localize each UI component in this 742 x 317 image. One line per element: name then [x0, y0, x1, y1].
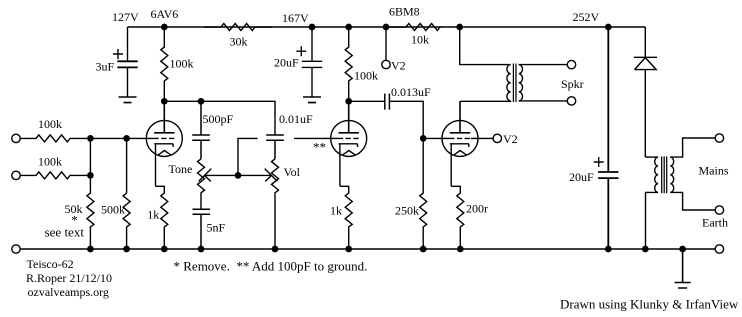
svg-text:R.Roper 21/12/10: R.Roper 21/12/10	[26, 271, 112, 285]
junction rail Vol	[272, 246, 279, 253]
junction B+ at 100k V1	[161, 24, 168, 31]
junction rail 1k V1	[161, 246, 168, 253]
svg-text:Vol: Vol	[284, 165, 301, 179]
junction rail 50k	[87, 246, 94, 253]
junction rail 500k	[123, 246, 130, 253]
junction B+ at OT primary	[456, 24, 463, 31]
wire V2 heater stub	[385, 27, 387, 60]
terminal Earth	[715, 245, 723, 253]
svg-text:250k: 250k	[395, 204, 419, 218]
svg-text:Drawn using Klunky & IrfanView: Drawn using Klunky & IrfanView	[560, 297, 739, 312]
terminal V2 top	[382, 60, 390, 68]
transformer PT primary top lead	[646, 156, 659, 158]
svg-text:10k: 10k	[411, 33, 429, 47]
junction wiper node	[235, 172, 242, 179]
terminal Mains top	[715, 134, 723, 142]
svg-text:V2: V2	[503, 132, 518, 146]
svg-text:100k: 100k	[170, 57, 194, 71]
junction rail 1k V2a	[345, 246, 352, 253]
svg-text:20uF: 20uF	[569, 170, 594, 184]
junction rail 20uF reservoir	[605, 246, 612, 253]
junction B+ at V2 stub	[383, 24, 390, 31]
ground below 3uF	[119, 97, 137, 103]
triode V2b plate	[450, 101, 470, 133]
input jack 2	[12, 171, 20, 179]
svg-text:* Remove. ** Add 100pF to gro: * Remove. ** Add 100pF to ground.	[174, 259, 368, 274]
junction B+ at 20uF	[309, 24, 316, 31]
junction plate node 500pF	[198, 98, 205, 105]
svg-text:167V: 167V	[282, 11, 309, 25]
triode V2b grid	[449, 137, 471, 139]
wire 3uF top lead	[127, 27, 129, 61]
svg-text:500k: 500k	[101, 203, 125, 217]
transformer PT mains winding	[670, 157, 673, 192]
triode V1 plate	[154, 101, 174, 133]
wire plate V2a to coupling cap	[349, 100, 385, 102]
svg-text:5nF: 5nF	[207, 221, 226, 235]
wire B+ to OT primary	[460, 27, 511, 65]
junction input2 mix	[87, 172, 94, 179]
junction rail Tone	[198, 246, 205, 253]
resistor R 50k grid leak	[87, 175, 94, 249]
resistor R 100k plate load V1	[161, 27, 168, 101]
triode V2a 6BM8 envelope	[331, 120, 367, 156]
triode V1 cathode	[154, 144, 173, 187]
triode V2a heater	[343, 151, 355, 155]
junction plate V1	[161, 98, 168, 105]
capacitor C 20uF electrolytic	[302, 27, 322, 97]
svg-text:500pF: 500pF	[203, 112, 234, 126]
svg-text:1k: 1k	[330, 204, 342, 218]
plus sign 3uF	[113, 49, 123, 59]
svg-text:Tone: Tone	[169, 162, 193, 176]
potentiometer Vol body	[272, 159, 279, 249]
ground chassis earth	[675, 249, 691, 288]
svg-text:20uF: 20uF	[274, 56, 299, 70]
svg-text:0.01uF: 0.01uF	[279, 112, 313, 126]
terminal Spkr bottom	[567, 97, 575, 105]
triode V1 heater	[158, 151, 170, 155]
svg-text:3uF: 3uF	[96, 60, 115, 74]
terminal input ground	[12, 245, 20, 253]
triode V1 grid	[153, 137, 175, 139]
svg-text:6BM8: 6BM8	[389, 4, 420, 18]
junction grid node 500k	[123, 135, 130, 142]
wire wiper node up to grid wire	[238, 138, 258, 175]
svg-text:see text: see text	[45, 224, 85, 239]
transformer OT secondary winding	[519, 65, 523, 101]
svg-text:**: **	[313, 139, 326, 154]
diode D1 rectifier	[634, 27, 657, 157]
node plate V1 wire to 0.01uF	[164, 101, 275, 135]
potentiometer Vol wiper arrow	[238, 169, 277, 182]
wire ground rail	[20, 248, 715, 250]
svg-text:100k: 100k	[354, 69, 378, 83]
svg-text:Spkr: Spkr	[561, 77, 584, 91]
wire grid V2b to terminal	[471, 137, 493, 139]
junction plate V2a	[345, 98, 352, 105]
svg-text:200r: 200r	[466, 202, 488, 216]
capacitor C 0.01uF coupling	[266, 135, 284, 159]
potentiometer Tone wiper arrow	[199, 169, 238, 182]
capacitor C 0.013uF	[385, 94, 390, 110]
junction rail earth	[679, 246, 686, 253]
wire join inputs	[89, 138, 91, 175]
resistor R 200r cathode V2b	[451, 186, 464, 249]
junction B+ at 100k V2a	[345, 24, 352, 31]
wire PT mains bottom to terminal	[670, 192, 715, 210]
resistor R 10k	[389, 24, 440, 31]
ground below 20uF	[303, 97, 321, 103]
wire PT HT bottom to rail	[646, 192, 659, 249]
wire 3uF bottom lead	[127, 67, 129, 97]
triode V2a cathode	[339, 144, 358, 187]
wire OT secondary to speaker terminals	[519, 65, 568, 101]
capacitor C 20uF reservoir	[598, 27, 618, 249]
transformer OT core	[513, 64, 516, 103]
plus sign 20uF reservoir	[594, 157, 604, 167]
svg-text:100k: 100k	[38, 155, 62, 169]
svg-text:Teisco-62: Teisco-62	[27, 257, 74, 271]
svg-text:Mains: Mains	[699, 164, 729, 178]
svg-text:252V: 252V	[573, 10, 600, 24]
svg-text:ozvalveamps.org: ozvalveamps.org	[28, 285, 109, 299]
svg-text:1k: 1k	[147, 208, 159, 222]
plus sign 20uF	[296, 46, 306, 56]
capacitor C 3uF electrolytic plates	[117, 61, 137, 67]
wire grid V2 from cap	[294, 137, 338, 139]
svg-text:127V: 127V	[112, 10, 139, 24]
transformer PT core	[662, 156, 667, 193]
junction grid node inputs	[87, 135, 94, 142]
resistor R 30k	[204, 24, 272, 31]
wire cap to grid node V2b	[390, 101, 449, 138]
capacitor C 5nF	[193, 209, 211, 249]
resistor R 100k input 1	[20, 135, 90, 142]
junction rail 250k	[420, 246, 427, 253]
terminal Spkr top	[567, 60, 575, 68]
terminal Mains bottom	[715, 206, 723, 214]
wire PT mains top to terminal	[670, 138, 715, 157]
wire grid node to V1	[90, 137, 153, 139]
junction grid V2b	[420, 135, 427, 142]
triode V2a grid	[338, 137, 360, 139]
svg-text:0.013uF: 0.013uF	[391, 85, 431, 99]
junction rail 200r	[457, 246, 464, 253]
triode V2b heater	[454, 151, 466, 155]
resistor R 250k grid V2b	[420, 138, 427, 249]
svg-text:V2: V2	[391, 58, 406, 72]
resistor R 500k	[123, 138, 130, 249]
triode V2b 6BM8 envelope	[442, 120, 478, 156]
junction B+ at 20uF reservoir	[605, 24, 612, 31]
transformer OT primary winding	[507, 65, 511, 101]
wire OT primary bottom to plate V2b	[460, 100, 511, 102]
svg-text:100k: 100k	[38, 117, 62, 131]
resistor R 100k input 2	[20, 172, 90, 179]
capacitor C 500pF	[192, 101, 210, 159]
input jack 1	[12, 134, 20, 142]
triode V2b cathode	[450, 144, 469, 187]
resistor R 1k cathode V1	[156, 186, 168, 249]
triode V1 6AV6 envelope	[146, 120, 182, 156]
triode V2a plate	[339, 101, 359, 133]
svg-text:30k: 30k	[230, 35, 248, 49]
terminal V2 grid	[493, 134, 501, 142]
resistor R 100k plate load V2a	[345, 27, 352, 101]
resistor R 1k cathode V2a	[340, 186, 352, 249]
svg-text:Earth: Earth	[702, 216, 728, 230]
potentiometer Tone body	[198, 159, 205, 209]
junction rail PT	[642, 246, 649, 253]
svg-text:6AV6: 6AV6	[151, 7, 179, 21]
transformer PT HT winding	[655, 157, 658, 192]
wire B+ top rail 127V to diode	[128, 26, 646, 28]
